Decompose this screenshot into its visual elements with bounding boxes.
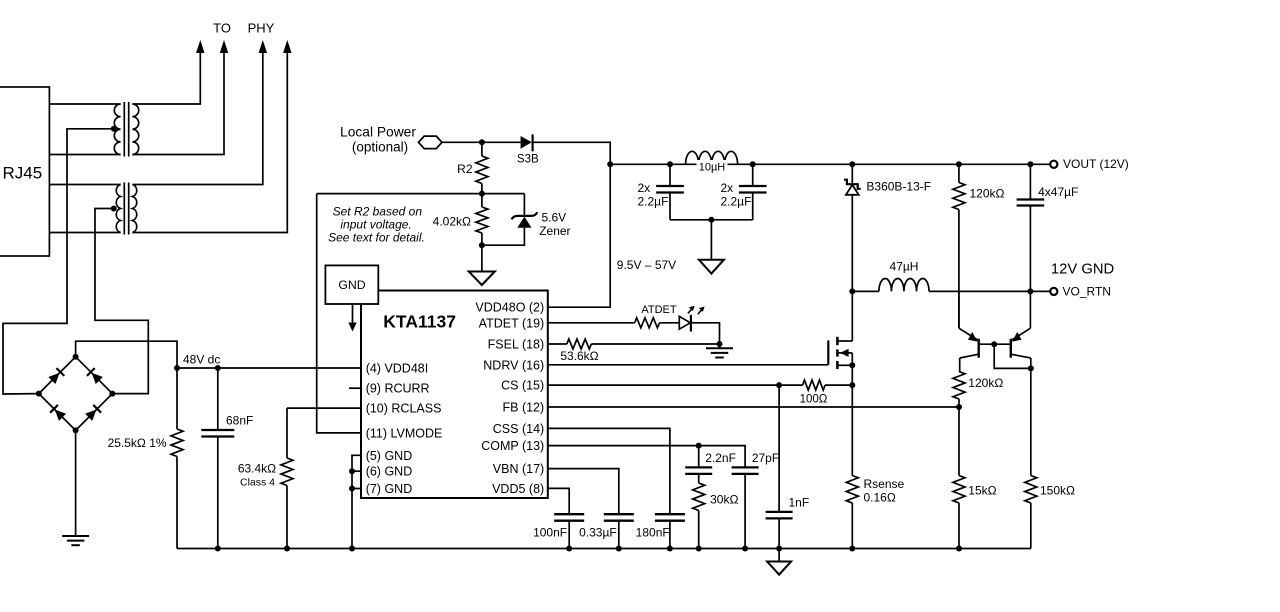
svg-text:VO_RTN: VO_RTN (1063, 284, 1111, 298)
wire T1 secondary bottom to PHY arrow 2 (132, 52, 224, 155)
wire source (851, 353, 853, 476)
svg-text:(11) LVMODE: (11) LVMODE (366, 426, 443, 440)
svg-text:2x: 2x (721, 181, 734, 195)
node input cap left (667, 161, 673, 167)
node rail 15k (956, 546, 962, 552)
node B360B top (849, 161, 855, 167)
ground (triangle) input (699, 260, 724, 274)
op-amp / IC U1 KTA1137 body (361, 291, 548, 499)
transformer T1 primary winding (114, 104, 120, 154)
wire RCLASS (287, 407, 361, 409)
arrow to PHY 2 (220, 40, 229, 53)
node CS/1nF (776, 382, 782, 388)
svg-text:150kΩ: 150kΩ (1040, 484, 1075, 498)
diode B360B-13-F (851, 164, 853, 184)
wire base tie (979, 343, 1011, 345)
svg-text:S3B: S3B (517, 154, 539, 166)
inductor 47uH (852, 290, 879, 292)
wire GND pins bracket (352, 455, 361, 548)
wire RJ45 to T1 primary bottom (49, 154, 120, 156)
svg-text:48V dc: 48V dc (183, 353, 220, 367)
node VO_RTN (1027, 288, 1033, 294)
svg-text:Set R2 based on: Set R2 based on (333, 204, 423, 218)
wire FSEL pin (548, 343, 567, 345)
capacitor 2x 2.2uF (left) (669, 164, 671, 186)
resistor 120k (lower) (959, 358, 961, 372)
svg-text:Zener: Zener (539, 224, 570, 238)
wire bridge bottom to ground (75, 430, 77, 535)
svg-text:FSEL (18): FSEL (18) (488, 338, 545, 352)
transformer T2 secondary winding (132, 185, 136, 233)
svg-text:RJ45: RJ45 (3, 163, 43, 182)
wire T2 center tap to bridge right (95, 209, 148, 394)
node rail 27pF (742, 546, 748, 552)
node ATDET/FSEL ground (717, 341, 723, 347)
transformer T2 primary winding (116, 185, 120, 233)
transformer T1 secondary winding (132, 104, 138, 154)
svg-text:53.6kΩ: 53.6kΩ (560, 349, 598, 363)
ground (triangle) below rail (778, 549, 780, 562)
node COMP/2.2nF (696, 443, 702, 449)
svg-text:2.2µF: 2.2µF (721, 195, 752, 209)
svg-text:CSS (14): CSS (14) (493, 422, 544, 436)
LED ATDET (679, 316, 690, 329)
arrow to PHY 3 (259, 40, 268, 53)
svg-text:VDD5 (8): VDD5 (8) (492, 482, 544, 496)
svg-text:FB (12): FB (12) (503, 401, 545, 415)
svg-text:2.2nF: 2.2nF (705, 451, 736, 465)
svg-text:Rsense: Rsense (864, 477, 905, 491)
svg-text:100nF: 100nF (533, 525, 567, 539)
node rail 100nF (566, 546, 572, 552)
bridge diode D1 (left-top edge) (48, 368, 64, 384)
svg-text:COMP (13): COMP (13) (481, 439, 544, 453)
wire T2 secondary top to PHY arrow 3 (132, 52, 262, 185)
transistor Q1 N-MOSFET (827, 340, 829, 364)
capacitor 1nF (778, 385, 780, 512)
diode S3B (521, 136, 532, 149)
wire RJ45 to T2 primary top (49, 184, 120, 186)
svg-text:(9) RCURR: (9) RCURR (366, 382, 430, 396)
arrow to PHY 1 (196, 40, 205, 53)
wire COMP pin (548, 446, 745, 468)
bridge diode D4 (bottom-right edge) (85, 405, 101, 421)
svg-text:180nF: 180nF (636, 525, 670, 539)
wire VBN pin (548, 469, 619, 515)
svg-text:VDD48O (2): VDD48O (2) (475, 301, 544, 315)
wire T1 secondary top to PHY arrow 1 (132, 52, 200, 104)
node rail 180nF (667, 546, 673, 552)
node GND6 (349, 468, 355, 474)
wire input caps bottom (670, 219, 753, 221)
node rail Rsense (849, 546, 855, 552)
resistor 25.5k 1% (176, 368, 178, 429)
node rail 1nF (776, 546, 782, 552)
svg-text:1nF: 1nF (789, 496, 810, 510)
svg-text:ATDET (19): ATDET (19) (479, 316, 545, 330)
node rail 30k (696, 546, 702, 552)
transformer T2 core (123, 183, 125, 235)
node T2 center tap (111, 206, 117, 212)
inductor 10uH (686, 151, 738, 164)
node rail 63.4k (284, 546, 290, 552)
svg-text:2.2µF: 2.2µF (638, 195, 669, 209)
svg-text:4.02kΩ: 4.02kΩ (433, 215, 471, 229)
svg-text:B360B-13-F: B360B-13-F (866, 179, 931, 193)
node bridge bottom (73, 427, 79, 433)
capacitor 0.33uF (604, 513, 634, 515)
wire top rail to VOUT (610, 163, 1049, 165)
node bases (991, 341, 997, 347)
capacitor 4x47uF (1027, 161, 1033, 167)
capacitor 180nF (655, 513, 685, 515)
bridge diode D3 (bottom-left edge) (50, 405, 66, 421)
wire ATDET pin (548, 322, 635, 324)
node 48V dc (174, 365, 180, 371)
wire VDD5 pin (548, 488, 569, 514)
wire bottom ground rail (177, 548, 1031, 550)
diode bridge outline (39, 357, 113, 431)
node 68nF top (215, 365, 221, 371)
wire CS pin (548, 384, 803, 386)
svg-text:(optional): (optional) (352, 139, 408, 154)
ground (earth) ATDET (719, 344, 721, 348)
label VOUT terminal (1050, 161, 1057, 168)
wire drain (851, 291, 853, 341)
capacitor 2.2nF (698, 446, 700, 468)
capacitor 100nF (554, 513, 584, 515)
svg-text:(5) GND: (5) GND (366, 449, 413, 463)
svg-text:2x: 2x (638, 181, 651, 195)
node collector/base tie (1028, 365, 1034, 371)
wire T1 center tap to bridge left (3, 129, 114, 394)
arrow to PHY 4 (283, 40, 292, 53)
resistor 100 ohm (803, 380, 826, 390)
svg-text:Local Power: Local Power (340, 124, 416, 139)
svg-text:10µH: 10µH (699, 161, 726, 173)
node rail 0.33uF (616, 546, 622, 552)
resistor ATDET series (635, 318, 660, 328)
resistor Rsense 0.16 ohm (851, 475, 853, 477)
wire R2 (481, 142, 483, 156)
svg-text:25.5kΩ 1%: 25.5kΩ 1% (108, 436, 167, 450)
svg-text:15kΩ: 15kΩ (968, 484, 996, 498)
node caps bottom (708, 217, 714, 223)
resistor R2 (476, 156, 488, 183)
wire LVMODE node (317, 193, 525, 195)
svg-text:27pF: 27pF (752, 451, 779, 465)
svg-text:4x47µF: 4x47µF (1038, 185, 1078, 199)
svg-text:120kΩ: 120kΩ (968, 376, 1003, 390)
zener 5.6V (523, 194, 525, 217)
transistor Q2 PNP (left) (958, 291, 960, 328)
bridge diode D2 (right-top edge) (87, 368, 103, 384)
svg-text:Class 4: Class 4 (240, 477, 275, 489)
transformer T1 core (123, 102, 125, 157)
node rail GND bracket (349, 546, 355, 552)
svg-text:PHY: PHY (248, 20, 275, 35)
svg-text:63.4kΩ: 63.4kΩ (238, 462, 276, 476)
svg-text:(4) VDD48I: (4) VDD48I (366, 362, 429, 376)
svg-text:NDRV (16): NDRV (16) (483, 358, 544, 372)
resistor 30k (698, 474, 700, 483)
svg-text:VBN (17): VBN (17) (493, 462, 544, 476)
svg-text:0.16Ω: 0.16Ω (864, 491, 896, 505)
wire FB pin (548, 406, 959, 408)
wire T2 secondary bottom to PHY arrow 4 (132, 52, 287, 233)
wire bridge top to 48V node (76, 341, 177, 368)
wire RJ45 to T1 primary top (49, 103, 120, 105)
resistor 63.4k Class 4 (286, 408, 288, 458)
node bridge top (73, 354, 79, 360)
wire S3B to rail and VDD48O (533, 142, 611, 307)
node input cap right (750, 161, 756, 167)
node bridge right (109, 391, 115, 397)
node bridge left (36, 391, 42, 397)
GND arrow (352, 304, 354, 324)
capacitor 68nF (217, 368, 219, 430)
connector hexagon Local Power (419, 136, 442, 149)
wire LED to ground (691, 323, 720, 344)
svg-text:0.33µF: 0.33µF (579, 525, 617, 539)
svg-text:68nF: 68nF (226, 413, 253, 427)
resistor 4.02k (476, 207, 488, 233)
svg-text:9.5V – 57V: 9.5V – 57V (617, 258, 676, 272)
svg-text:47µH: 47µH (890, 260, 919, 274)
node GND7 (349, 486, 355, 492)
node 4.02k bottom (479, 242, 485, 248)
node B360B/47uH (849, 288, 855, 294)
resistor 150k (1030, 368, 1032, 475)
svg-text:input voltage.: input voltage. (340, 217, 411, 231)
node R2 top (479, 139, 485, 145)
RJ45 connector box (0, 87, 49, 256)
node rail left (607, 161, 613, 167)
svg-text:TO: TO (213, 20, 231, 35)
wire RJ45 to T2 primary bottom (49, 232, 120, 234)
svg-text:(6) GND: (6) GND (366, 465, 413, 479)
wire NDRV to gate (548, 364, 829, 366)
node source stub (849, 362, 855, 368)
wire CSS pin (548, 428, 670, 514)
pin stub RCURR (9) (349, 387, 361, 389)
node FB/120k (956, 404, 962, 410)
transistor Q3 PNP (right, diode-connected) (1029, 291, 1031, 328)
ground (earth) below bridge (62, 535, 89, 537)
capacitor 2x 2.2uF (right) (752, 164, 754, 186)
ground under 4.02k (481, 245, 483, 271)
svg-text:KTA1137: KTA1137 (383, 312, 456, 332)
capacitor 27pF (732, 466, 759, 468)
svg-text:5.6V: 5.6V (542, 210, 567, 224)
resistor 120k (upper) (956, 161, 962, 167)
node R2 bottom / LVMODE (479, 191, 485, 197)
svg-text:(10) RCLASS: (10) RCLASS (366, 402, 442, 416)
wire to input ground (710, 220, 712, 260)
svg-text:120kΩ: 120kΩ (970, 186, 1005, 200)
node T1 center tap (111, 126, 117, 132)
svg-text:(7) GND: (7) GND (366, 482, 413, 496)
svg-text:ATDET: ATDET (641, 304, 677, 316)
GND net box (325, 265, 378, 304)
svg-text:100Ω: 100Ω (800, 394, 828, 406)
resistor 53.6k (567, 339, 591, 349)
node rail 68nF (215, 546, 221, 552)
wire hexagon to S3B (442, 141, 521, 143)
wire 48V dc rail to VDD48I (177, 367, 361, 369)
svg-text:CS (15): CS (15) (501, 379, 544, 393)
node source/CS (849, 382, 855, 388)
svg-text:R2: R2 (457, 162, 473, 176)
svg-text:See text for detail.: See text for detail. (328, 231, 425, 245)
svg-text:GND: GND (338, 278, 365, 292)
svg-text:12V GND: 12V GND (1051, 261, 1114, 277)
resistor 15k (953, 476, 965, 504)
svg-text:30kΩ: 30kΩ (710, 493, 738, 507)
label VO_RTN terminal (1050, 288, 1057, 295)
svg-text:VOUT (12V): VOUT (12V) (1063, 157, 1129, 171)
